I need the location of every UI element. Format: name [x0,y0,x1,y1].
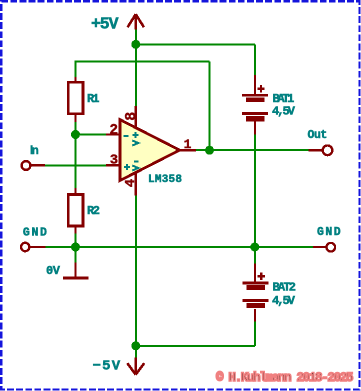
wire BAT2 bottom vertical [254,321,256,346]
junction GND rail left node [71,243,80,252]
resistor R2 [74,188,76,195]
svg-text:2: 2 [109,123,118,139]
BAT1 plus sign [257,85,264,92]
op-amp U1 body [120,120,180,181]
wire feedback vertical [209,62,211,151]
power symbol -5V arrow [127,358,144,375]
wire op-amp pin4 down to -5V vertical [135,196,137,358]
wire bottom rail horizontal [136,345,255,347]
svg-text:Out: Out [308,129,328,142]
svg-text:R1: R1 [87,92,100,106]
wire GND rail horizontal [46,246,314,248]
svg-text:© H.Kuhlmann 2018-2025: © H.Kuhlmann 2018-2025 [216,371,354,385]
terminal GND right [313,246,327,248]
op-amp non-inverting input mark (+) [124,164,130,170]
op-amp V- label (rotated) minus [134,161,139,163]
junction output/feedback node [205,146,214,155]
svg-text:LM358: LM358 [148,174,182,186]
op-amp pin 1 lead [179,149,196,151]
svg-text:R2: R2 [87,204,100,218]
svg-text:4,5V: 4,5V [272,105,296,119]
svg-text:In: In [30,145,39,157]
op-amp pin 4 lead [135,174,137,196]
junction GND rail / battery node [250,243,259,252]
svg-text:1: 1 [184,137,192,152]
power symbol +5V arrow [128,14,144,29]
svg-text:GND: GND [317,226,341,239]
svg-text:+5V: +5V [91,15,119,34]
junction -5V node [131,341,140,350]
wire R1 bottom to R2 top vertical [75,121,77,189]
op-amp inverting input mark (-) [124,135,129,137]
svg-text:GND: GND [23,226,47,239]
wire pin3 horizontal [45,164,106,166]
svg-text:4: 4 [123,179,139,187]
junction R1/R2/pin2 node [71,130,80,139]
wire feedback top horizontal [76,61,210,63]
battery BAT2 [254,264,256,283]
wire +5V vertical to pin 8 [135,29,137,106]
wire pin2 horizontal [76,134,107,136]
wire R1 top vertical [75,61,77,79]
op-amp pin 8 lead [135,106,137,127]
svg-text:8: 8 [123,112,140,121]
ground symbol 0V bar [74,263,76,277]
wire output horizontal [196,149,309,151]
op-amp pin 3 lead [106,164,121,166]
junction +5V node [131,40,140,49]
wire BAT1 bottom to GND and BAT2 vertical [254,134,256,263]
svg-text:3: 3 [110,153,118,169]
wire +5V top horizontal [136,43,255,45]
op-amp V- label (rotated) V [132,166,138,171]
svg-text:−5V: −5V [93,359,121,375]
terminal GND left [30,246,46,248]
battery BAT1 [254,75,256,95]
svg-text:4,5V: 4,5V [272,294,296,308]
op-amp pin 2 lead [106,133,121,135]
BAT2 plus sign [258,273,265,280]
terminal Out [309,149,323,151]
wire +5V to BAT1 vertical [254,44,256,75]
wire R2 bottom to GND rail vertical [75,233,77,264]
terminal In [30,164,45,166]
resistor R1 [74,77,76,83]
op-amp V+ label (rotated) plus [132,132,138,138]
svg-text:0V: 0V [46,264,61,278]
op-amp V+ label (rotated) V [132,141,138,146]
svg-text:BAT2: BAT2 [273,281,297,295]
